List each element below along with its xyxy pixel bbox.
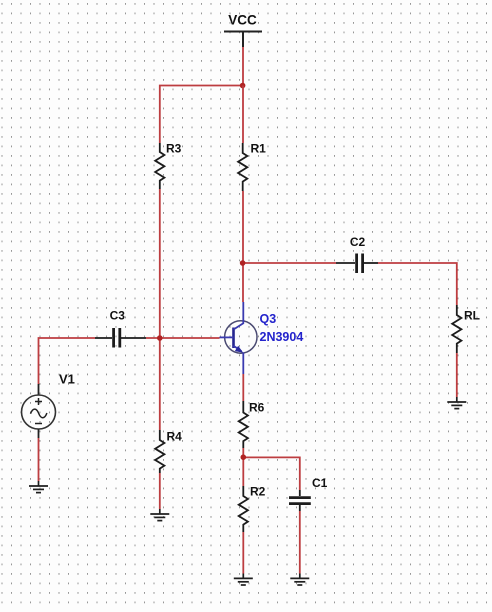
wire RL to ground bbox=[456, 353, 458, 397]
wire C1 to ground bbox=[299, 511, 301, 574]
source V1 bbox=[22, 384, 56, 438]
node junction at collector/C2 bbox=[240, 260, 246, 266]
svg-text:R3: R3 bbox=[166, 142, 182, 156]
wire R4 to ground bbox=[159, 473, 161, 509]
VCC power symbol bbox=[224, 32, 262, 48]
svg-text:VCC: VCC bbox=[228, 13, 257, 28]
ground (R4) bbox=[150, 509, 169, 521]
wire R2 to ground bbox=[242, 532, 244, 574]
wire junction to C1 bbox=[243, 457, 299, 490]
wire R6 through junction to R2 bbox=[242, 448, 244, 486]
wire VCC to top junction bbox=[242, 47, 244, 86]
resistor R4 bbox=[155, 430, 182, 474]
svg-text:R4: R4 bbox=[167, 430, 183, 444]
ground (V1) bbox=[29, 481, 48, 493]
wire R3 bottom through C3 junction to R4 bbox=[159, 189, 161, 430]
wire C2 to RL bbox=[378, 263, 457, 305]
resistor R1 bbox=[238, 142, 266, 192]
svg-text:C1: C1 bbox=[312, 476, 328, 490]
capacitor C1 bbox=[289, 476, 328, 511]
wire junction to C2 bbox=[243, 262, 336, 264]
ground (R2) bbox=[234, 574, 253, 586]
ground (C1) bbox=[290, 574, 309, 586]
wire emitter to R6 bbox=[242, 374, 244, 401]
wire V1 to ground bbox=[38, 438, 40, 481]
transistor Q3 body bbox=[220, 302, 244, 374]
capacitor C3 bbox=[95, 309, 146, 348]
svg-text:RL: RL bbox=[464, 309, 480, 323]
transistor Q1 circle bbox=[225, 321, 257, 353]
capacitor C2 bbox=[336, 235, 378, 273]
wire C3 to base junction bbox=[146, 337, 220, 339]
svg-text:C2: C2 bbox=[350, 235, 366, 249]
svg-text:R2: R2 bbox=[250, 485, 266, 499]
wire R1 bottom through C2 junction to collector bbox=[242, 191, 244, 302]
svg-text:C3: C3 bbox=[110, 309, 126, 323]
resistor R6 bbox=[239, 401, 265, 449]
node junction at VCC branch bbox=[240, 83, 246, 89]
resistor RL bbox=[452, 305, 480, 353]
svg-text:V1: V1 bbox=[59, 372, 75, 387]
wire junction to R1 top bbox=[242, 86, 244, 144]
wire top branch to R3 bbox=[160, 86, 243, 144]
resistor R2 bbox=[239, 485, 266, 533]
wire V1 to C3 bbox=[39, 338, 96, 384]
svg-text:Q3: Q3 bbox=[260, 312, 277, 326]
node junction R6/R2/C1 bbox=[241, 454, 247, 460]
svg-text:R6: R6 bbox=[249, 401, 265, 415]
ground (RL) bbox=[447, 397, 466, 409]
resistor R3 bbox=[155, 142, 181, 190]
node junction C3/R3/R4/base bbox=[157, 335, 163, 341]
svg-text:2N3904: 2N3904 bbox=[260, 330, 304, 344]
svg-text:R1: R1 bbox=[251, 142, 267, 156]
